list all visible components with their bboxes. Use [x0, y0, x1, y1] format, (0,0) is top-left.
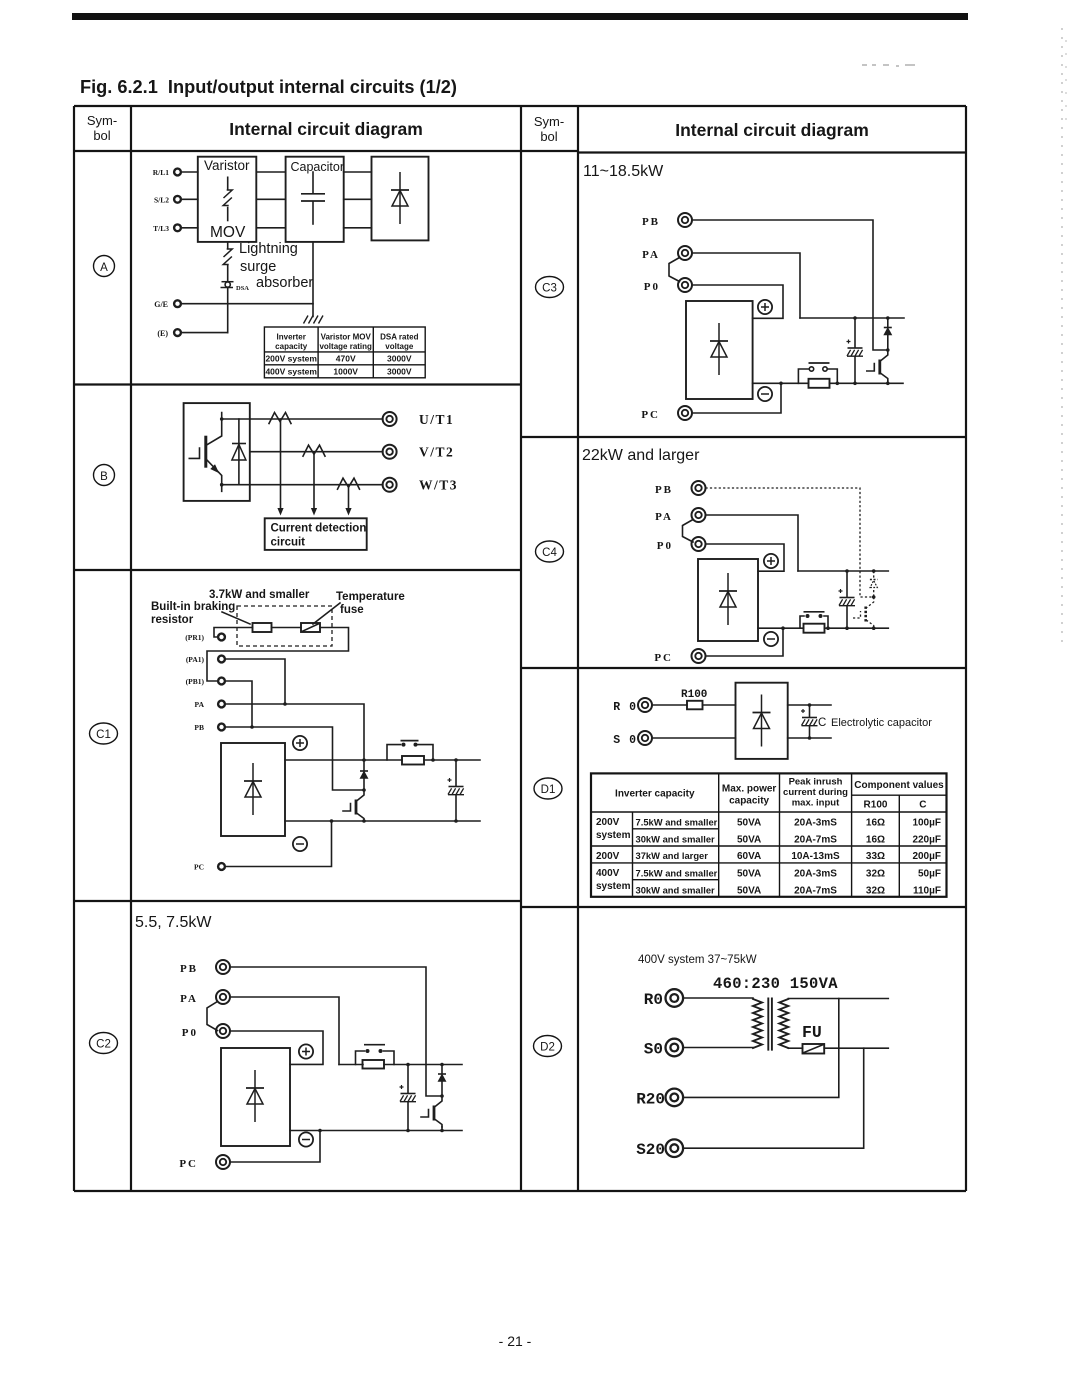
callout line to temperature fuse [313, 603, 340, 624]
terminal P0 C3 [644, 278, 692, 293]
terminal P0 [182, 1024, 230, 1039]
scan noise dots top right [862, 64, 915, 67]
top rule bar [72, 13, 968, 20]
diode symbol C3 [710, 323, 728, 375]
terminal (PR1) [185, 633, 225, 642]
svg-text:20A-7mS: 20A-7mS [794, 835, 837, 846]
junction cap bottom C3 [853, 382, 857, 386]
svg-text:DSA: DSA [236, 285, 249, 292]
junction diode top C3 [886, 316, 890, 320]
junction cap top C4 [845, 569, 849, 573]
svg-text:50VA: 50VA [737, 869, 761, 880]
callout line to braking resistor [222, 612, 250, 624]
minus mark circle [299, 1132, 313, 1146]
wires capacitor box to diode box [344, 172, 372, 228]
terminal (PB1) [186, 677, 225, 686]
wire T/L3 to varistor box [182, 227, 198, 229]
junction cap bottom [454, 819, 458, 823]
svg-text:Varistor MOV: Varistor MOV [321, 333, 372, 342]
junction contact right C3 [836, 382, 840, 386]
terminal W/T3 [383, 478, 458, 493]
wire PR1 up through resistor chain [207, 628, 349, 682]
svg-text:circuit: circuit [271, 537, 306, 549]
terminal T/L3 [153, 224, 181, 233]
svg-text:MOV: MOV [210, 224, 246, 241]
wire PB to chopper [230, 967, 442, 1096]
wire G/E to ground [182, 303, 314, 305]
svg-text:- 21 -: - 21 - [499, 1333, 532, 1349]
output wire bottom D1 [788, 737, 831, 739]
inrush resistor C1 [402, 756, 424, 765]
table grid [74, 106, 966, 1191]
current detection circuit box [265, 518, 367, 550]
CT sense arrow 3 [345, 485, 351, 516]
svg-text:10A-13mS: 10A-13mS [791, 851, 840, 862]
plus mark circle [293, 736, 307, 750]
D1 component table [591, 773, 947, 896]
wire S/L2 to varistor box [182, 198, 198, 200]
junction PC/minus bus C2 [318, 1129, 322, 1133]
DSA surge arrester symbol [221, 282, 250, 292]
svg-text:capacity: capacity [729, 796, 769, 807]
terminal PC [179, 1155, 230, 1170]
svg-text:Built-in braking: Built-in braking [151, 601, 235, 613]
terminal PC C4 [654, 649, 705, 664]
svg-text:50VA: 50VA [737, 835, 761, 846]
wire secondary top [788, 998, 888, 1000]
symbol B [94, 465, 115, 486]
junction cap bottom [406, 1129, 410, 1133]
dashed freewheel diode chopper C4 [870, 571, 878, 597]
wire PA line to plus bus [226, 704, 364, 760]
minus bus wire C2 [290, 1130, 462, 1132]
svg-text:Inverter capacity: Inverter capacity [615, 789, 695, 800]
svg-text:30kW and smaller: 30kW and smaller [636, 885, 716, 896]
svg-text:DSA rated: DSA rated [380, 333, 418, 342]
wire U/T1 line [250, 418, 383, 420]
capacitor box [286, 157, 344, 242]
junction PA1/PA [283, 702, 287, 706]
wire PA1 to PA line [226, 659, 285, 704]
diode symbol in box [391, 172, 409, 224]
svg-text:PB: PB [194, 723, 204, 732]
lightning surge absorber varistor symbol [223, 249, 232, 281]
plus bus wire C3 [800, 317, 904, 319]
CT sense arrow 1 [277, 419, 283, 516]
IGBT module bottom rail wire [222, 484, 250, 486]
inrush resistor C3 [809, 379, 830, 388]
terminal G/E [154, 300, 181, 309]
relay contact bypass C3 [798, 363, 837, 383]
svg-text:Lightning: Lightning [239, 241, 298, 257]
svg-text:P0: P0 [182, 1027, 198, 1039]
svg-text:5.5, 7.5kW: 5.5, 7.5kW [135, 914, 212, 931]
wire PA to plus bus C4 [706, 515, 799, 571]
diode symbol C2 [246, 1070, 264, 1122]
resistor R100 [687, 701, 703, 710]
svg-text:absorber: absorber [256, 275, 313, 291]
relay contact bypass C4 [800, 612, 828, 628]
svg-text:Electrolytic capacitor: Electrolytic capacitor [831, 717, 932, 729]
terminal S0 D1 [613, 731, 652, 747]
wire P0 to rectifier plus [230, 1031, 323, 1064]
symbol C4 [536, 541, 564, 562]
svg-text:PC: PC [179, 1158, 198, 1170]
wire W/T3 line [250, 484, 383, 486]
svg-text:R0: R0 [644, 991, 663, 1009]
svg-text:C4: C4 [542, 547, 557, 559]
wire R0 to transformer primary [683, 997, 753, 999]
transistor braking IGBT C3 [867, 350, 888, 381]
label C Electrolytic capacitor [818, 717, 932, 729]
svg-text:PB: PB [642, 216, 660, 228]
svg-text:fuse: fuse [340, 604, 364, 616]
transformer T secondary winding [779, 999, 788, 1048]
svg-text:(PR1): (PR1) [185, 633, 204, 642]
wire DSA to (E) line [227, 289, 229, 333]
wire S0 to transformer primary [683, 1047, 753, 1049]
svg-text:Fig. 6.2.1 Input/output inter: Fig. 6.2.1 Input/output internal circuit… [80, 77, 457, 97]
svg-text:Capacitor: Capacitor [291, 160, 345, 174]
svg-text:220µF: 220µF [912, 835, 941, 846]
wire (E) to DSA leg [182, 332, 228, 334]
svg-text:R100: R100 [864, 800, 888, 811]
wire S0 to diode box [652, 737, 736, 739]
bracket wire PA-P0 [207, 1002, 218, 1031]
junction dashed emitter/minus bus C4 [872, 626, 876, 630]
transformer core [768, 998, 772, 1051]
svg-text:surge: surge [240, 259, 276, 275]
junction chopper node C2 [440, 1094, 444, 1098]
svg-text:37kW and larger: 37kW and larger [636, 850, 709, 861]
terminal (PA1) [186, 655, 225, 664]
svg-text:(E): (E) [157, 329, 168, 338]
output wire top D1 [788, 704, 831, 706]
rectifier diode box C2 [221, 1048, 290, 1146]
wire fuse to right [824, 1047, 888, 1049]
svg-text:470V: 470V [336, 354, 356, 364]
relay contact bypass C2 [356, 1045, 395, 1065]
junction chopper node C3 [886, 348, 890, 352]
CT sense arrow 2 [311, 452, 317, 516]
terminal PC C3 [641, 406, 692, 421]
electrolytic capacitor C3 [847, 318, 864, 383]
svg-text:50VA: 50VA [737, 886, 761, 897]
svg-text:R/L1: R/L1 [153, 168, 170, 177]
terminal PC [194, 863, 225, 872]
junction dots module rails [220, 417, 224, 421]
terminal PB C4 [655, 481, 706, 496]
svg-text:A: A [100, 262, 108, 274]
electrolytic capacitor C2 [400, 1065, 417, 1131]
plus mark circle [299, 1044, 313, 1058]
wire R20 tap [683, 999, 839, 1098]
freewheel diode chopper [360, 760, 368, 790]
transistor braking IGBT [343, 790, 364, 821]
svg-text:PA: PA [655, 511, 673, 523]
svg-text:PA: PA [195, 700, 205, 709]
diode symbol C4 [719, 573, 737, 625]
varistor MOV symbol [223, 177, 232, 220]
svg-text:Peak inrush: Peak inrush [789, 777, 843, 788]
junction cap top D1 [808, 703, 812, 707]
IGBT module box [184, 403, 250, 501]
transformer T primary winding [753, 999, 762, 1048]
svg-text:R100: R100 [681, 689, 707, 701]
svg-text:Internal circuit diagram: Internal circuit diagram [229, 119, 423, 139]
terminal PB C3 [642, 213, 692, 228]
rectifier diode box C1 [221, 743, 285, 836]
wire PC to minus bus [226, 821, 332, 867]
bracket wire PA-P0 C4 [683, 520, 694, 543]
svg-text:voltage: voltage [385, 342, 414, 351]
svg-text:Temperature: Temperature [336, 591, 405, 603]
svg-text:20A-3mS: 20A-3mS [794, 818, 837, 829]
terminal PA [195, 700, 225, 709]
symbol C3 [536, 277, 564, 298]
freewheel diode chopper C3 [884, 318, 892, 350]
svg-text:system: system [596, 881, 631, 892]
ground hatch [304, 316, 324, 324]
svg-text:30kW and smaller: 30kW and smaller [636, 834, 716, 845]
terminal PB [180, 960, 230, 975]
wire PC to minus bus C2 [230, 1131, 320, 1163]
minus bus wire C4 [758, 627, 888, 629]
wire V/T2 line [250, 451, 383, 453]
svg-text:20A-7mS: 20A-7mS [794, 886, 837, 897]
fuse FU [803, 1044, 825, 1054]
diode box [372, 157, 429, 241]
junction PC/minus bus [330, 819, 334, 823]
svg-text:PC: PC [641, 409, 660, 421]
wires varistor box to capacitor box [256, 172, 285, 228]
rectifier diode box C3 [686, 301, 753, 399]
lightning surge absorber leg wire [227, 242, 229, 249]
wire capacitor box to ground [312, 242, 314, 317]
svg-text:20A-3mS: 20A-3mS [794, 869, 837, 880]
terminal (E) [157, 329, 181, 338]
svg-text:D2: D2 [540, 1042, 555, 1054]
wire PC to minus bus C4 [706, 628, 784, 656]
junction contact right C4 [826, 626, 830, 630]
minus mark circle C4 [764, 632, 778, 646]
svg-text:bol: bol [540, 129, 557, 144]
svg-text:11~18.5kW: 11~18.5kW [583, 163, 664, 180]
terminal R20 D2 [636, 1089, 683, 1109]
svg-text:(PA1): (PA1) [186, 655, 205, 664]
svg-text:32Ω: 32Ω [866, 869, 885, 880]
varistor box [198, 157, 256, 242]
wire PA to plus bus C3 [692, 253, 800, 318]
svg-text:PA: PA [180, 993, 198, 1005]
symbol C2 [90, 1033, 118, 1054]
svg-text:Varistor: Varistor [204, 158, 250, 173]
svg-text:Sym-: Sym- [87, 113, 117, 128]
junction PA/plus bus [362, 758, 366, 762]
svg-text:7.5kW and smaller: 7.5kW and smaller [636, 817, 718, 828]
svg-text:16Ω: 16Ω [866, 835, 885, 846]
terminal PB [194, 723, 224, 732]
relay contact bypass C1 [387, 741, 433, 760]
junction PC/minus bus C4 [781, 626, 785, 630]
svg-text:400V: 400V [596, 868, 620, 879]
svg-text:system: system [596, 830, 631, 841]
terminal U/T1 [383, 412, 455, 427]
svg-text:PB: PB [655, 484, 673, 496]
dashed enclosure box [237, 606, 332, 646]
wire PB1 down to PB line [226, 681, 252, 727]
plus mark circle C4 [764, 554, 778, 568]
label lightning surge absorber [239, 241, 313, 291]
svg-text:S0: S0 [644, 1041, 663, 1059]
capacitor C symbol [301, 172, 325, 224]
plus bus wire C4 [798, 570, 888, 572]
terminal S20 D2 [636, 1139, 683, 1159]
plus mark circle C3 [758, 300, 772, 314]
svg-text:G/E: G/E [154, 300, 168, 309]
svg-text:3.7kW and smaller: 3.7kW and smaller [209, 589, 310, 601]
wire secondary bottom to fuse [788, 1047, 802, 1049]
temperature fuse element [301, 623, 320, 632]
terminal R0 D2 [644, 989, 683, 1009]
terminal R0 D1 [613, 698, 652, 714]
junction cap top [406, 1063, 410, 1067]
svg-text:200V: 200V [596, 851, 620, 862]
wire S20 tap [683, 1048, 864, 1148]
electrolytic capacitor C D1 [801, 705, 818, 738]
wire R0 to resistor [652, 704, 687, 706]
current transformer CT2 [303, 445, 325, 456]
junction chopper node [362, 788, 366, 792]
svg-text:S20: S20 [636, 1141, 665, 1159]
current transformer CT1 [269, 413, 291, 424]
junction emitter/minus bus C3 [886, 381, 890, 386]
svg-text:capacity: capacity [275, 342, 308, 351]
svg-text:200V: 200V [596, 817, 620, 828]
inrush resistor C4 [804, 624, 825, 633]
svg-text:400V system 37~75kW: 400V system 37~75kW [638, 954, 757, 966]
svg-text:PA: PA [642, 249, 660, 261]
scan artifact dotted line right margin [1061, 28, 1063, 648]
wire P0 to rectifier plus C4 [706, 544, 785, 571]
svg-text:C: C [919, 800, 926, 811]
MOV/DSA rating table [264, 327, 425, 378]
svg-text:D1: D1 [541, 784, 556, 796]
svg-text:PC: PC [194, 863, 204, 872]
minus bus wire C3 [753, 382, 903, 384]
svg-text:resistor: resistor [151, 614, 194, 626]
plus bus wire [285, 759, 480, 761]
terminal P0 C4 [657, 537, 706, 552]
junction cap bottom C4 [845, 626, 849, 630]
svg-text:V/T2: V/T2 [419, 445, 454, 460]
svg-text:22kW and larger: 22kW and larger [582, 447, 700, 464]
svg-text:32Ω: 32Ω [866, 886, 885, 897]
freewheel diode D in module [232, 419, 246, 485]
symbol A [94, 256, 115, 277]
terminal S0 D2 [644, 1039, 683, 1059]
svg-text:voltage rating: voltage rating [319, 342, 372, 351]
svg-text:Inverter: Inverter [277, 333, 306, 342]
svg-text:50µF: 50µF [918, 869, 941, 880]
svg-text:S/L2: S/L2 [154, 195, 169, 204]
label Built-in braking resistor [151, 601, 235, 626]
junction emitter/minus bus [362, 819, 366, 823]
symbol C1 [90, 723, 118, 744]
svg-text:U/T1: U/T1 [419, 412, 454, 427]
svg-text:W/T3: W/T3 [419, 478, 458, 493]
svg-text:bol: bol [93, 128, 110, 143]
transistor braking IGBT C2 [421, 1096, 442, 1127]
symbol D2 [534, 1036, 562, 1057]
resistor (braking) [253, 623, 272, 632]
svg-text:100µF: 100µF [912, 818, 941, 829]
label Temperature fuse [336, 591, 405, 616]
svg-text:200µF: 200µF [912, 851, 941, 862]
svg-text:60VA: 60VA [737, 851, 761, 862]
svg-text:400V system: 400V system [265, 367, 317, 377]
svg-text:FU: FU [802, 1023, 822, 1042]
svg-text:C1: C1 [96, 729, 111, 741]
svg-text:C: C [818, 717, 826, 729]
svg-text:(PB1): (PB1) [186, 677, 205, 686]
svg-text:Component values: Component values [854, 780, 944, 791]
bracket wire PA-P0 C3 [669, 258, 680, 282]
rectifier diode box C4 [698, 559, 758, 641]
terminal PA C4 [655, 508, 705, 523]
charge bus wire [339, 1064, 462, 1066]
junction emitter/minus bus C2 [440, 1127, 444, 1133]
inrush resistor C2 [363, 1060, 385, 1069]
symbol D1 [534, 778, 562, 799]
svg-text:current during: current during [783, 787, 848, 798]
wire PB line to chopper node [226, 727, 364, 790]
minus bus wire [285, 820, 480, 822]
junction cap top C3 [853, 316, 857, 320]
svg-text:Current detection: Current detection [271, 523, 367, 535]
terminal S/L2 [154, 195, 181, 204]
terminal V/T2 [383, 445, 455, 460]
electrolytic capacitor C1 [448, 760, 465, 821]
wire PA to charge bus [230, 997, 339, 1065]
svg-text:3000V: 3000V [387, 367, 412, 377]
svg-text:PB: PB [180, 963, 198, 975]
svg-text:7.5kW and smaller: 7.5kW and smaller [636, 868, 718, 879]
junction contact right [431, 758, 435, 762]
minus mark circle C3 [758, 387, 772, 401]
wire PB to chopper C3 [692, 220, 888, 350]
svg-text:33Ω: 33Ω [866, 851, 885, 862]
diode symbol C1 [244, 763, 262, 815]
diode symbol D1 [753, 695, 771, 747]
svg-text:B: B [100, 471, 108, 483]
terminal PA [180, 990, 230, 1005]
svg-text:P0: P0 [644, 281, 660, 293]
svg-text:C3: C3 [542, 283, 557, 295]
current transformer CT3 [338, 478, 360, 489]
svg-text:460:230 150VA: 460:230 150VA [713, 975, 838, 993]
svg-text:Internal circuit diagram: Internal circuit diagram [675, 120, 869, 140]
svg-text:R20: R20 [636, 1090, 665, 1108]
junction diode top [440, 1063, 444, 1067]
svg-text:max. input: max. input [792, 798, 840, 809]
svg-text:Max. power: Max. power [722, 784, 777, 795]
junction cap bottom D1 [808, 736, 812, 740]
junction cap top [454, 758, 458, 762]
freewheel diode chopper C2 [438, 1065, 446, 1097]
rectifier diode box D1 [736, 683, 788, 759]
dashed transistor braking IGBT C4 [853, 597, 874, 628]
